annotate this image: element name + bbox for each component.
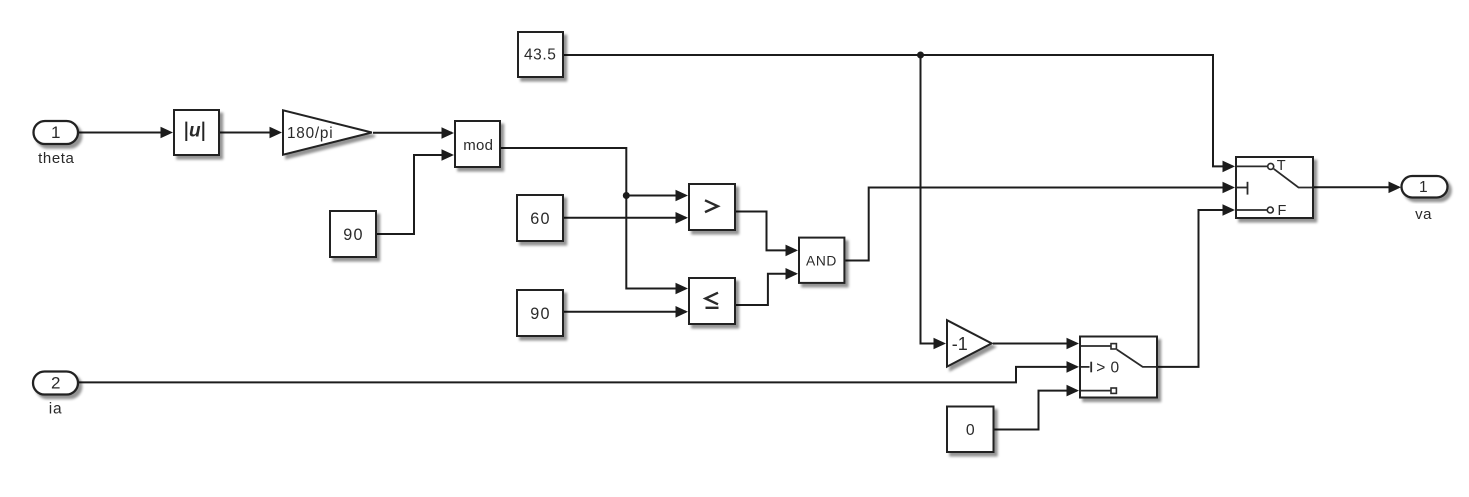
wire constant 90b to <= in2 xyxy=(564,311,686,313)
abs block |u| xyxy=(174,110,219,155)
switch2 top port square xyxy=(1111,344,1116,349)
constant 90a xyxy=(330,211,376,257)
arrowhead into switch1 T xyxy=(1223,161,1236,173)
constant 43.5 xyxy=(518,32,563,77)
wire switch1 output to outport va xyxy=(1314,186,1399,188)
arrowhead into switch2 bottom xyxy=(1067,385,1080,397)
arrowhead into switch1 F xyxy=(1223,204,1236,216)
relational operator <= block xyxy=(689,278,735,324)
arrowhead into abs xyxy=(161,127,174,139)
arrowhead into mod in1 xyxy=(442,127,455,139)
wire gain -1 to switch2 top xyxy=(993,343,1077,345)
svg-text:-1: -1 xyxy=(952,334,968,354)
switch2 selector diagonal xyxy=(1117,350,1156,367)
svg-text:90: 90 xyxy=(343,226,363,244)
arrowhead into > in1 xyxy=(676,190,689,202)
wire <= output to AND in2 xyxy=(736,274,796,305)
wire > output to AND in1 xyxy=(736,212,796,251)
svg-text:180/pi: 180/pi xyxy=(287,125,333,142)
wire abs to gain 180/pi xyxy=(220,132,280,134)
constant 60 xyxy=(517,195,563,241)
logical AND block xyxy=(799,238,844,283)
arrowhead into switch1 control xyxy=(1223,182,1236,194)
arrowhead into switch2 control xyxy=(1067,361,1080,373)
switch2 block xyxy=(1080,337,1157,398)
wire constant 90a to mod in2 xyxy=(377,155,452,234)
arrowhead into outport va xyxy=(1389,182,1402,194)
svg-text:theta: theta xyxy=(38,150,74,167)
switch1 control stub and tick xyxy=(1237,187,1248,189)
svg-text:ia: ia xyxy=(49,400,63,417)
switch2 control stub and tick xyxy=(1081,366,1090,368)
wire junction down to relational <= in1 xyxy=(626,196,686,289)
inport 2 ia pill xyxy=(33,372,78,395)
outport 1 va pill xyxy=(1402,176,1448,198)
arrowhead into switch2 top xyxy=(1067,338,1080,350)
wire gain to mod in1 xyxy=(373,132,452,134)
svg-text:1: 1 xyxy=(1419,179,1428,196)
switch1 T input stub xyxy=(1237,165,1268,167)
constant 90b xyxy=(517,290,563,336)
wire constant 60 to > in2 xyxy=(564,217,686,219)
svg-text:2: 2 xyxy=(51,374,60,393)
arrowhead into <= in1 xyxy=(676,283,689,295)
switch2 top input stub xyxy=(1081,345,1111,347)
svg-text:u: u xyxy=(189,120,201,141)
wire constant 0 to switch2 bottom xyxy=(995,391,1078,430)
junction dot 43.5 branch xyxy=(917,52,924,59)
switch1 selector diagonal xyxy=(1274,169,1312,188)
inport 1 theta pill xyxy=(34,121,79,144)
relational operator > block xyxy=(689,184,735,230)
arrowhead into > in2 xyxy=(676,212,689,224)
wire inport ia to switch2 control xyxy=(79,367,1077,383)
wire junction 43.5 down to gain -1 xyxy=(921,55,945,344)
svg-text:60: 60 xyxy=(530,210,550,228)
gain -1 triangle xyxy=(947,320,992,366)
svg-text:AND: AND xyxy=(806,253,837,268)
wire constant 43.5 to switch1 T xyxy=(564,55,1233,166)
switch1 block xyxy=(1236,157,1313,218)
arrowhead into <= in2 xyxy=(676,306,689,318)
gain 180/pi triangle xyxy=(283,110,372,154)
arrowhead into gain -1 xyxy=(934,338,947,350)
wire AND output to switch1 control xyxy=(845,188,1233,261)
svg-text:0: 0 xyxy=(966,422,975,439)
switch1 T port circle xyxy=(1268,163,1274,169)
arrowhead into gain 180/pi xyxy=(270,127,283,139)
wire switch2 output to switch1 F xyxy=(1158,210,1233,367)
arrowhead into AND in2 xyxy=(786,268,799,280)
switch2 bottom port square xyxy=(1111,388,1116,393)
svg-text:43.5: 43.5 xyxy=(524,47,556,64)
constant 0 xyxy=(947,407,994,453)
switch2 bottom input stub xyxy=(1081,390,1111,392)
svg-text:mod: mod xyxy=(463,137,493,154)
mod block xyxy=(455,121,500,167)
svg-text:F: F xyxy=(1278,203,1287,219)
junction dot mod branch xyxy=(623,192,630,199)
svg-text:1: 1 xyxy=(51,123,60,142)
svg-text:90: 90 xyxy=(530,305,550,323)
wire inport theta to abs xyxy=(78,132,170,134)
arrowhead into AND in1 xyxy=(786,245,799,257)
svg-text:> 0: > 0 xyxy=(1096,359,1119,376)
switch1 F port circle xyxy=(1267,207,1273,213)
wire mod output to junction and relational > in1 xyxy=(501,148,686,196)
switch1 F input stub xyxy=(1237,209,1267,211)
svg-text:va: va xyxy=(1415,206,1432,223)
arrowhead into mod in2 xyxy=(442,149,455,161)
